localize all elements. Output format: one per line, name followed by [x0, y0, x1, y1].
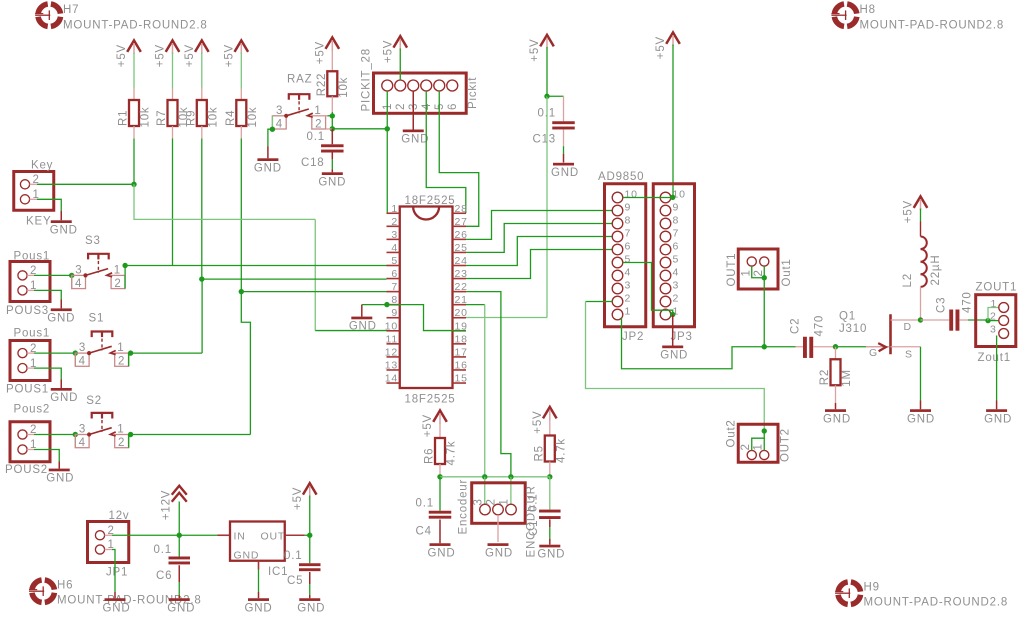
svg-text:2: 2 [625, 293, 632, 305]
svg-text:470: 470 [814, 315, 826, 337]
svg-text:3: 3 [75, 264, 82, 276]
svg-text:+5V: +5V [116, 44, 128, 67]
ground symbol below Q1 source [907, 409, 935, 425]
junction output node [762, 344, 767, 349]
wire JP3 pin1 to ground [672, 315, 674, 346]
IC pin 14 stub [387, 382, 400, 384]
pin stub R5 bottom [549, 462, 551, 477]
IC pin 11 stub [387, 343, 400, 345]
ZOUT1 pin1 circle [999, 303, 1009, 313]
IC pin 9 stub [387, 317, 400, 319]
svg-text:MOUNT-PAD-ROUND2.8: MOUNT-PAD-ROUND2.8 [63, 20, 208, 32]
wire jog to C13 [547, 95, 564, 97]
wire Key net into PIC pin10 [315, 330, 386, 332]
wire output node to C2 [764, 346, 795, 348]
IC pin 3 stub [387, 238, 400, 240]
svg-text:1: 1 [114, 264, 121, 276]
svg-text:21: 21 [455, 294, 468, 306]
wire R4 net jog down to S2 [241, 292, 250, 435]
svg-text:9: 9 [673, 202, 680, 214]
POUS3 pin1 circle [18, 286, 27, 295]
POUS1 pin1 circle [18, 364, 27, 373]
junction R5 bottom [547, 474, 552, 479]
svg-text:4: 4 [673, 267, 680, 279]
JP2 pin 6 circle [612, 244, 623, 255]
+5V supply arrow above R5 [532, 407, 557, 434]
POUS1 pin2 circle [18, 349, 27, 358]
svg-text:7: 7 [625, 228, 632, 240]
svg-text:R22: R22 [316, 73, 328, 97]
pin stub bottom of R9 [201, 126, 203, 139]
junction S1 pin1 node [128, 350, 133, 355]
connector PICKIT_28 box [374, 73, 467, 113]
svg-text:GND: GND [823, 413, 851, 425]
svg-text:D: D [904, 321, 912, 333]
svg-text:7: 7 [391, 281, 398, 293]
svg-text:GND: GND [428, 547, 456, 559]
connector ZOUT1 box [976, 295, 1016, 347]
mount pad H6 [29, 580, 54, 602]
junction +12V node [177, 533, 182, 538]
pin stub IC1 OUT [285, 534, 305, 536]
pin stub R6 top [439, 423, 441, 439]
wire Key pin2 to R1 node [37, 183, 134, 185]
+5V supply arrow above C13 [529, 35, 554, 62]
connector OUT1 box [738, 249, 778, 289]
svg-text:5: 5 [625, 254, 632, 266]
ground symbol below PICKIT pin3 [401, 130, 429, 146]
svg-text:13: 13 [385, 359, 398, 371]
JP3 pin 5 circle [660, 257, 671, 268]
Out2 pin1 circle [760, 450, 769, 459]
wire S1 pin2 box edge [128, 353, 130, 366]
wire node down to C5 [309, 535, 311, 563]
junction IC pin8 [384, 302, 389, 307]
PICKIT pin 5 circle [434, 80, 445, 91]
junction RAZ ground node [270, 127, 275, 132]
switch RAZ [272, 94, 325, 130]
Q1 source pin [891, 346, 921, 348]
wire IC pin8 to pin19 through body [387, 305, 466, 331]
svg-text:2: 2 [118, 437, 125, 449]
svg-text:+5V: +5V [532, 411, 544, 434]
svg-text:24: 24 [455, 255, 468, 267]
svg-text:5: 5 [391, 255, 398, 267]
JP3 pin 9 circle [660, 205, 671, 216]
+5V supply arrow above L2 [903, 197, 928, 224]
+5V supply arrow above R7 [155, 41, 180, 68]
svg-text:22: 22 [455, 281, 468, 293]
svg-text:S: S [905, 349, 913, 361]
pin stub C5 bottom [309, 572, 311, 584]
+5V supply arrow above R9 [184, 41, 209, 68]
svg-text:1: 1 [117, 342, 124, 354]
IC pin 2 stub [387, 225, 400, 227]
JP3 pin 6 circle [660, 244, 671, 255]
svg-text:R4: R4 [225, 110, 237, 126]
svg-text:+5V: +5V [529, 39, 541, 62]
svg-text:18: 18 [455, 333, 468, 345]
svg-text:+5V: +5V [382, 40, 394, 63]
pin stub C13 top [563, 96, 565, 121]
ground symbol below C18 [318, 170, 346, 189]
pin stub R5 top [549, 419, 551, 436]
wire R7 down to S3 net [172, 139, 174, 266]
svg-text:1: 1 [625, 306, 632, 318]
svg-text:Out2: Out2 [726, 419, 738, 447]
POUS3 pin2 circle [18, 271, 27, 280]
capacitor C6 [169, 557, 191, 560]
+5V supply arrow above R4 [223, 41, 248, 68]
svg-text:H7: H7 [63, 4, 79, 16]
wire into encoder pin1 [510, 477, 512, 505]
svg-text:26: 26 [455, 229, 468, 241]
ground symbol below POUS3 [47, 308, 75, 324]
pin stub +5V to R22 [331, 50, 333, 72]
IC pin 24 stub [453, 264, 467, 266]
junction MCLR / C18 [330, 126, 335, 131]
svg-text:JP3: JP3 [671, 331, 693, 343]
wire Key pin1 to ground [37, 199, 61, 211]
svg-text:6: 6 [625, 241, 632, 253]
IC pin 21 stub [453, 304, 467, 306]
Key pin1 circle [20, 195, 29, 204]
ZOUT1 pin2 circle [999, 316, 1009, 326]
IC pin 18 stub [453, 343, 467, 345]
pin stub Key pin1 [30, 198, 37, 200]
svg-text:GND: GND [50, 392, 78, 404]
connector Encodeur box [472, 483, 526, 524]
junction S2 pin1 node [128, 432, 133, 437]
wire IC pin26 to JP2 pin9 [466, 211, 613, 240]
svg-text:10k: 10k [338, 77, 350, 98]
pin stub IC1 GND [258, 561, 260, 570]
svg-text:R6: R6 [424, 448, 436, 464]
IC pin 22 stub [453, 291, 467, 293]
ground symbol below encoder [485, 543, 513, 559]
svg-text:Pous1: Pous1 [14, 251, 51, 263]
JP3 pin 8 circle [660, 218, 671, 229]
svg-text:GND: GND [167, 602, 195, 614]
ground symbol below ZOUT1 [984, 409, 1012, 425]
wire R4 down to node [240, 139, 242, 292]
junction Out2 [762, 428, 767, 433]
JP2 pin 5 circle [612, 257, 623, 268]
svg-text:9: 9 [391, 307, 398, 319]
svg-text:3: 3 [391, 229, 398, 241]
svg-text:Pickit: Pickit [467, 77, 479, 109]
wire S1 pin4 box edge [74, 353, 76, 366]
wire +5V to R4 [240, 53, 242, 89]
svg-text:GND: GND [46, 473, 74, 485]
wire +5V to PICKIT pin2 [399, 49, 401, 81]
svg-text:C18: C18 [301, 157, 325, 169]
JP2 pin 3 circle [612, 283, 623, 294]
connector Pous2 box [10, 422, 50, 462]
Out2 pin2 circle [747, 450, 756, 459]
mount pad H9 [835, 582, 860, 604]
wire POUS2 pin2 to S2 [34, 434, 75, 436]
svg-text:1: 1 [391, 203, 398, 215]
wire JP1 pin1 to ground [105, 549, 112, 551]
IC pin 23 stub [453, 278, 467, 280]
svg-text:1: 1 [753, 443, 765, 450]
IC pin 17 stub [453, 356, 467, 358]
encoder pin1 circle [506, 504, 517, 515]
wire JP2 pin10 to JP3 pin10 +5V [623, 197, 673, 199]
svg-text:H6: H6 [57, 580, 73, 592]
svg-text:8: 8 [673, 215, 680, 227]
svg-text:GND: GND [47, 312, 75, 324]
svg-text:28: 28 [455, 203, 468, 215]
IC pin 16 stub [453, 369, 467, 371]
svg-text:4: 4 [79, 437, 86, 449]
svg-text:GND: GND [318, 176, 346, 188]
svg-text:+5V: +5V [655, 36, 667, 59]
junction R9 / S1 / PIC pin6 [199, 276, 204, 281]
svg-text:6: 6 [447, 103, 459, 110]
resistor R4 [236, 100, 246, 126]
pin stub bottom of R7 [172, 126, 174, 139]
resistor R22 [327, 71, 337, 96]
JP2 pin 1 circle [612, 309, 623, 320]
svg-text:GND: GND [50, 224, 78, 236]
svg-text:R2: R2 [819, 369, 831, 385]
svg-text:10: 10 [625, 189, 638, 201]
pin stub bottom of R1 [133, 126, 135, 139]
svg-text:4: 4 [79, 356, 86, 368]
wire S1 to R9 column [131, 352, 203, 354]
svg-text:+5V: +5V [422, 414, 434, 437]
capacitor C13 [552, 121, 575, 124]
pin stub top of R9 [201, 89, 203, 101]
svg-text:8: 8 [625, 215, 632, 227]
svg-text:7: 7 [673, 228, 680, 240]
pin stub R22 bottom [331, 96, 333, 112]
capacitor C5 [299, 563, 321, 566]
svg-text:2: 2 [990, 311, 997, 323]
svg-text:0.1: 0.1 [154, 544, 172, 556]
JP2 pin 4 circle [612, 270, 623, 281]
svg-text:C6: C6 [156, 570, 172, 582]
svg-text:C5: C5 [287, 575, 303, 587]
svg-text:IC1: IC1 [268, 566, 288, 578]
svg-text:OUT1: OUT1 [726, 253, 738, 287]
svg-text:20: 20 [455, 307, 468, 319]
svg-text:0.1: 0.1 [416, 498, 434, 510]
wire R5 down to C1 [549, 477, 551, 510]
junction OUT1 [762, 275, 767, 280]
JP2 pin 2 circle [612, 296, 623, 307]
svg-text:27: 27 [455, 216, 468, 228]
svg-text:6: 6 [673, 241, 680, 253]
ground symbol below C6 [167, 598, 195, 614]
svg-text:14: 14 [385, 373, 398, 385]
wire OUT1 down to output node [763, 278, 765, 347]
svg-text:2: 2 [395, 103, 407, 110]
svg-text:C4: C4 [416, 526, 432, 538]
svg-text:R7: R7 [156, 110, 168, 126]
wire to Q1 gate [836, 346, 867, 348]
svg-text:JP1: JP1 [106, 567, 128, 579]
wire S1 net up to R9 node [201, 279, 203, 353]
wire S2 pin4 box edge [74, 435, 76, 448]
svg-text:3: 3 [990, 324, 997, 336]
svg-text:GND: GND [254, 162, 282, 174]
wire JP2 pin5 to JP3 pin1 ground [623, 263, 673, 315]
IC pin 10 stub [387, 330, 400, 332]
svg-text:1: 1 [117, 424, 124, 436]
svg-text:GND: GND [401, 134, 429, 146]
svg-text:3: 3 [625, 280, 632, 292]
IC pin 13 stub [387, 369, 400, 371]
svg-text:+5V: +5V [155, 44, 167, 67]
wire C3 to ZOUT1 [968, 319, 988, 321]
svg-text:POUS2: POUS2 [5, 464, 48, 476]
ground symbol below RAZ [254, 146, 282, 174]
svg-text:1: 1 [741, 269, 753, 276]
pin stub C13 bottom [563, 130, 565, 147]
wire +5V down to JP3 pin10 [672, 45, 674, 198]
svg-text:GND: GND [907, 413, 935, 425]
junction C2 / R2 / gate [833, 344, 838, 349]
wire MCLR node down [331, 116, 333, 129]
svg-text:10k: 10k [207, 107, 219, 128]
svg-text:ZOUT1: ZOUT1 [976, 282, 1018, 294]
wire +12V arrow to node [178, 502, 180, 536]
junction encoder pin1 column [508, 474, 513, 479]
wire RAZ pin4 to ground node [271, 116, 273, 129]
JP1 pin1 circle [95, 545, 104, 554]
IC pin 27 stub [453, 225, 467, 227]
svg-text:J310: J310 [839, 323, 867, 335]
JP3 pin 2 circle [660, 296, 671, 307]
svg-text:18F2525: 18F2525 [405, 195, 456, 207]
wire R9 down to node [201, 139, 203, 280]
wire JP1 pin2 to +12V node [112, 534, 179, 536]
OUT1 pin1 circle [747, 257, 756, 266]
transistor Q1 J310 [866, 314, 891, 354]
IC pin 8 stub [387, 304, 400, 306]
pin stub bottom of R4 [240, 126, 242, 139]
resistor R1 [129, 100, 139, 126]
+5V supply arrow above R6 [422, 411, 447, 438]
svg-text:3: 3 [79, 424, 86, 436]
svg-text:+5V: +5V [903, 200, 915, 223]
+5V supply arrow above R22 [314, 38, 339, 65]
svg-text:R5: R5 [533, 445, 545, 461]
svg-text:Out1: Out1 [781, 258, 793, 286]
pin stub POUS2 pin2 [27, 434, 34, 436]
svg-text:GND: GND [485, 547, 513, 559]
connector JP2 box [605, 184, 646, 327]
svg-text:OUT: OUT [261, 531, 286, 543]
svg-text:4: 4 [75, 278, 82, 290]
svg-text:MOUNT-PAD-ROUND2.8: MOUNT-PAD-ROUND2.8 [864, 597, 1009, 609]
wire POUS3 pin2 to S3 [34, 274, 72, 276]
svg-text:OUT2: OUT2 [780, 428, 792, 462]
svg-text:GND: GND [984, 413, 1012, 425]
pin stub top of R7 [172, 89, 174, 101]
wire JP2 pin2 to Out2 [586, 301, 613, 303]
pin stub C1 bottom [549, 519, 551, 527]
junction POUS1 pin2 / S1 [73, 350, 78, 355]
switch S1 [75, 313, 128, 368]
junction R6 bottom [437, 474, 442, 479]
pin stub C2 right [813, 346, 835, 348]
wire Key net down and right [134, 184, 315, 219]
svg-text:4.7k: 4.7k [555, 438, 567, 463]
svg-text:GND: GND [234, 550, 260, 562]
wire PICKIT pin1 down to PIC pin1 [386, 91, 388, 213]
svg-text:5: 5 [673, 254, 680, 266]
JP3 pin 4 circle [660, 270, 671, 281]
svg-text:+5V: +5V [223, 44, 235, 67]
wire POUS2 pin1 to ground [27, 449, 34, 451]
svg-text:4: 4 [276, 118, 283, 130]
IC pin 5 stub [387, 264, 400, 266]
svg-text:3: 3 [79, 342, 86, 354]
switch S2 [75, 395, 128, 449]
svg-text:1: 1 [991, 298, 998, 310]
svg-text:POUS1: POUS1 [6, 384, 49, 396]
PICKIT pin 1 circle [382, 80, 393, 91]
svg-text:1: 1 [314, 105, 321, 117]
wire S3 to PIC pin5 [125, 265, 386, 267]
svg-text:GND: GND [551, 167, 579, 179]
svg-text:+12V: +12V [160, 490, 172, 520]
pin stub JP1 pin2 [105, 534, 112, 536]
svg-text:R9: R9 [185, 110, 197, 126]
ZOUT1 pin3 circle [999, 329, 1009, 339]
wire +12V node to IC1 IN [179, 534, 217, 536]
svg-text:C13: C13 [533, 134, 557, 146]
wire encoder pullup bus [440, 476, 550, 478]
junction encoder pin3 column [482, 474, 487, 479]
IC pin 25 stub [453, 251, 467, 253]
junction S3 pin1 node [122, 263, 127, 268]
wire R6 down to C4 [439, 477, 441, 511]
ground symbol below POUS2 [46, 469, 74, 485]
IC pin 19 stub [453, 330, 467, 332]
ground symbol below JP1 [103, 598, 131, 614]
pin stub R2 bottom [835, 385, 837, 403]
svg-text:GND: GND [349, 321, 377, 333]
Key pin2 circle [20, 180, 29, 189]
svg-text:2: 2 [391, 216, 398, 228]
resistor R7 [168, 100, 178, 126]
wire R22 to MCLR node [331, 112, 333, 116]
wire PICKIT pin3 to ground [412, 91, 414, 130]
svg-text:G: G [869, 347, 878, 359]
pin wire RAZ pin2 box to node [326, 128, 332, 130]
svg-text:16: 16 [455, 359, 468, 371]
wire IC pin25 to JP2 pin8 [466, 224, 613, 253]
svg-text:2: 2 [315, 118, 322, 130]
pin stub C18 top [331, 129, 333, 145]
junction POUS3 pin2 / S3 pin3-4 [69, 273, 74, 278]
svg-text:GND: GND [660, 350, 688, 362]
ground symbol below C5 [297, 598, 325, 614]
wire OUT1 pins join [752, 266, 765, 278]
svg-text:3: 3 [673, 280, 680, 292]
wire S2 to R4 column [131, 434, 251, 436]
junction JP3 pin1 [670, 312, 675, 317]
wire ZOUT1 pin3 to ground [996, 336, 998, 401]
wire MCLR node to PIC pin1 column [332, 128, 387, 130]
wire IC pin22 to encoder pin1 [466, 292, 511, 477]
wire +5V arrow to node [309, 496, 311, 536]
